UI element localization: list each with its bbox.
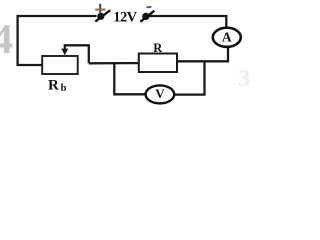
- ammeter A: [213, 28, 241, 47]
- svg-text:V: V: [155, 86, 165, 101]
- rheostat wiper arrow: [61, 45, 68, 55]
- svg-text:12V: 12V: [113, 10, 137, 26]
- wire: top-left from + terminal to left corner: [18, 15, 97, 17]
- wire: resistor R right to ammeter riser: [177, 60, 229, 62]
- svg-text:3: 3: [238, 66, 249, 92]
- svg-text:R: R: [48, 78, 59, 94]
- resistor R (box): [139, 54, 177, 73]
- rheostat Rb (box): [42, 56, 77, 74]
- battery terminal - (right binding post): [140, 11, 154, 22]
- wire: right voltmeter riser: [203, 61, 205, 94]
- svg-text:b: b: [61, 83, 67, 94]
- wire: bottom horizontal to voltmeter left: [113, 93, 145, 95]
- wire: top right from - terminal to corner and down to ammeter: [147, 16, 226, 28]
- polarity label +: [95, 4, 105, 15]
- polarity label -: [147, 6, 152, 8]
- wire: left vertical down to Rb level: [16, 15, 18, 65]
- wire: middle horizontal from wiper branch to resistor R: [89, 62, 139, 65]
- wire: ammeter bottom riser: [227, 48, 229, 63]
- voltmeter V: [146, 85, 175, 103]
- battery terminal + (left binding post): [95, 10, 110, 21]
- wire: voltmeter right to riser: [175, 93, 206, 95]
- wire: left voltmeter riser down: [113, 63, 115, 94]
- svg-text:4: 4: [0, 17, 13, 63]
- wire: horizontal into Rb left terminal: [17, 64, 43, 66]
- wire: wiper up and over to mid branch: [64, 45, 89, 63]
- svg-text:A: A: [222, 30, 232, 45]
